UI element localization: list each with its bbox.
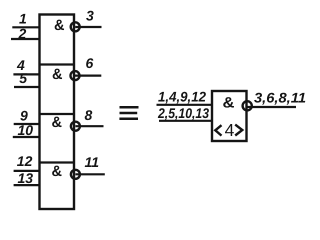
compact gate body <4>	[157, 91, 297, 141]
divider gate1/gate2	[40, 63, 75, 65]
svg-text:1,4,9,12: 1,4,9,12	[158, 89, 206, 105]
svg-text:8: 8	[85, 107, 93, 123]
inversion bubble gate 2 output	[71, 71, 80, 80]
inversion bubble compact gate output	[243, 101, 252, 110]
wire inputs 1,4,9,12	[157, 104, 213, 106]
svg-text:5: 5	[19, 70, 27, 86]
svg-text:3,6,8,11: 3,6,8,11	[254, 89, 306, 105]
svg-text:&: &	[54, 17, 65, 34]
IC body DD1 (quad 2-input NAND block)	[40, 15, 75, 210]
svg-text:4: 4	[225, 120, 235, 140]
wire input pin 5	[14, 86, 40, 88]
wire input pin 4	[13, 73, 39, 75]
wire output pin 8	[75, 125, 103, 127]
svg-text:13: 13	[18, 170, 34, 186]
wire output pin 6	[75, 74, 101, 76]
wire input pin 13	[14, 184, 40, 186]
svg-text:2,5,10,13: 2,5,10,13	[157, 105, 209, 121]
svg-text:3: 3	[86, 8, 94, 24]
svg-text:6: 6	[86, 55, 94, 71]
wire outputs 3,6,8,11	[247, 106, 296, 108]
divider gate3/gate4	[40, 161, 75, 163]
wire input pin 1	[12, 26, 39, 28]
wire inputs 2,5,10,13	[159, 120, 212, 122]
wire output pin 3	[75, 26, 101, 28]
svg-text:&: &	[223, 94, 235, 111]
svg-text:&: &	[52, 66, 63, 83]
wire input pin 2	[11, 38, 40, 40]
svg-text:&: &	[52, 163, 63, 180]
svg-text:11: 11	[85, 154, 100, 170]
divider gate2/gate3	[40, 113, 75, 115]
wire input pin 10	[13, 136, 40, 138]
wire input pin 9	[14, 123, 40, 125]
equivalence symbol	[119, 107, 138, 119]
quantity label <4> right bracket	[235, 125, 242, 136]
svg-text:2: 2	[18, 25, 27, 41]
quantity label <4> left bracket	[215, 125, 221, 135]
svg-text:&: &	[52, 114, 63, 131]
wire input pin 12	[14, 170, 40, 172]
svg-text:10: 10	[18, 122, 34, 138]
inversion bubble gate 3 output	[71, 122, 80, 131]
svg-text:1: 1	[19, 11, 27, 27]
inversion bubble gate 4 output	[71, 170, 80, 179]
svg-text:12: 12	[17, 153, 33, 169]
inversion bubble gate 1 output	[71, 22, 80, 31]
wire output pin 11	[75, 173, 104, 175]
